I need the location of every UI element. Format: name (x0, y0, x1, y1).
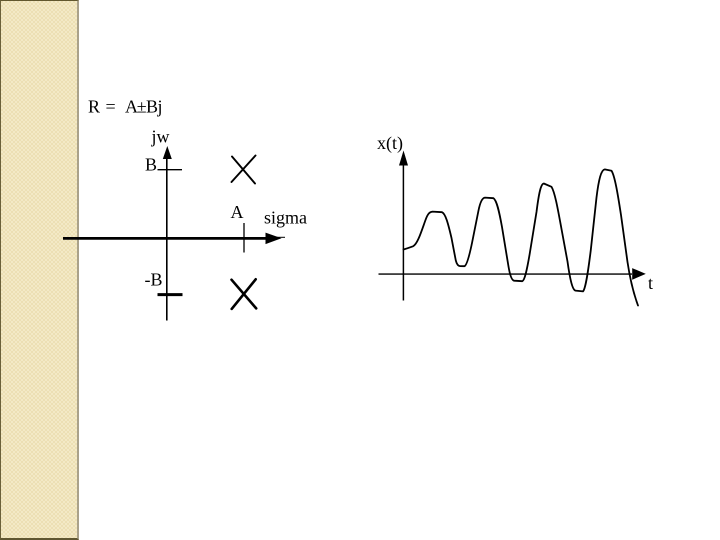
svg-text:-B: -B (145, 270, 163, 290)
svg-text:R: R (88, 97, 100, 117)
svg-text:jw: jw (151, 127, 170, 147)
svg-text:sigma: sigma (264, 208, 307, 228)
svg-text:x(t): x(t) (377, 133, 403, 154)
svg-text:B: B (145, 155, 157, 175)
svg-text:j: j (157, 97, 163, 117)
svg-text:=: = (106, 97, 116, 117)
svg-text:t: t (648, 273, 653, 293)
svg-text:A: A (231, 202, 244, 222)
svg-text:B: B (146, 97, 158, 117)
